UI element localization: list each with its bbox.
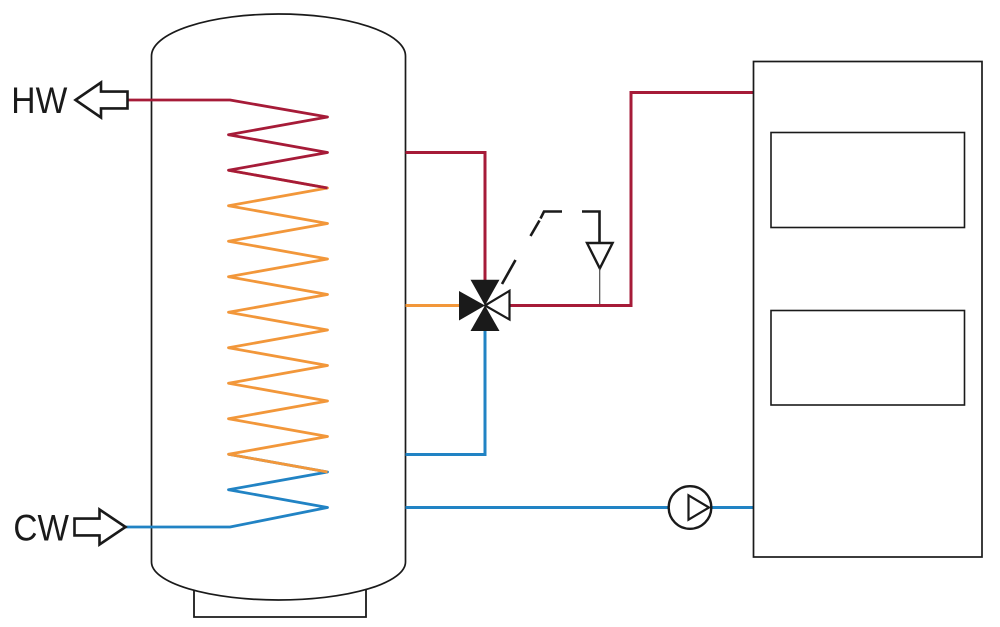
sensor triangle	[587, 243, 613, 268]
coil heat exchanger blue segment (CW in)	[126, 454, 328, 527]
tank pedestal	[194, 590, 366, 618]
coil heat exchanger orange segment	[229, 170, 328, 472]
orange pipe tank to valve left	[406, 304, 464, 307]
actuator dashed link segment 3 (corner)	[541, 212, 563, 219]
actuator dashed link segment 2	[531, 221, 540, 237]
CW arrow	[75, 510, 126, 545]
blue pipe tank to boiler via pump	[406, 506, 754, 509]
pump P1 impeller triangle	[689, 495, 710, 519]
valve V1 right port triangle (open)	[485, 291, 510, 320]
red pipe valve to boiler	[509, 93, 754, 306]
valve V1 left port triangle	[459, 291, 485, 321]
valve V1 top port triangle	[471, 280, 500, 306]
red pipe tank to valve top	[406, 153, 486, 291]
pump P1 circle	[669, 486, 712, 529]
valve V1 bottom port triangle	[471, 306, 500, 332]
boiler B1 body	[754, 62, 983, 558]
svg-text:CW: CW	[13, 508, 69, 549]
boiler panel lower	[771, 311, 965, 406]
actuator dashed link segment 1	[502, 260, 516, 284]
coil heat exchanger red segment (HW out)	[128, 100, 328, 188]
actuator dashed link segment 4 (elbow down)	[582, 212, 600, 244]
storage tank T1 body	[152, 14, 406, 600]
blue pipe valve bottom to tank	[406, 322, 486, 455]
boiler panel upper	[771, 133, 965, 228]
HW arrow	[76, 83, 128, 118]
svg-text:HW: HW	[11, 80, 67, 121]
sensor lead line	[599, 268, 601, 304]
